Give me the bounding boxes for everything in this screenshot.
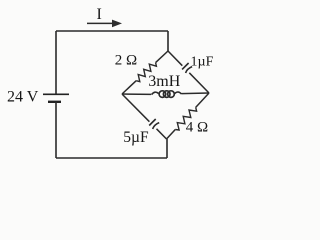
svg-text:3mH: 3mH [148,73,180,90]
wire right-top vertical (top wire down to bridge top node) [167,31,169,51]
wire left upper (top corner down to battery) [55,31,57,94]
capacitor 5µF (arm left node to bottom node) [122,94,167,139]
wire top (from battery top to bridge) [56,30,168,32]
capacitor 1µF (arm top node to right node) [168,51,209,93]
battery 24V [43,94,69,102]
resistor 4Ω (arm bottom node to right node) [167,93,210,139]
svg-text:4 Ω: 4 Ω [186,119,208,135]
svg-text:24 V: 24 V [7,88,39,105]
wire bottom [56,157,167,159]
inductor 3mH (middle branch, left node to right node) [122,91,209,98]
svg-text:5µF: 5µF [123,129,149,146]
svg-text:I: I [97,6,102,23]
svg-text:2 Ω: 2 Ω [115,53,137,69]
resistor 2Ω (arm top node to left node) [122,51,168,94]
current arrow I [87,20,122,28]
svg-text:1µF: 1µF [191,54,214,69]
wire bottom-right vertical (bottom wire up to bridge bottom node) [166,139,168,158]
wire left lower (battery to bottom corner) [55,102,57,158]
